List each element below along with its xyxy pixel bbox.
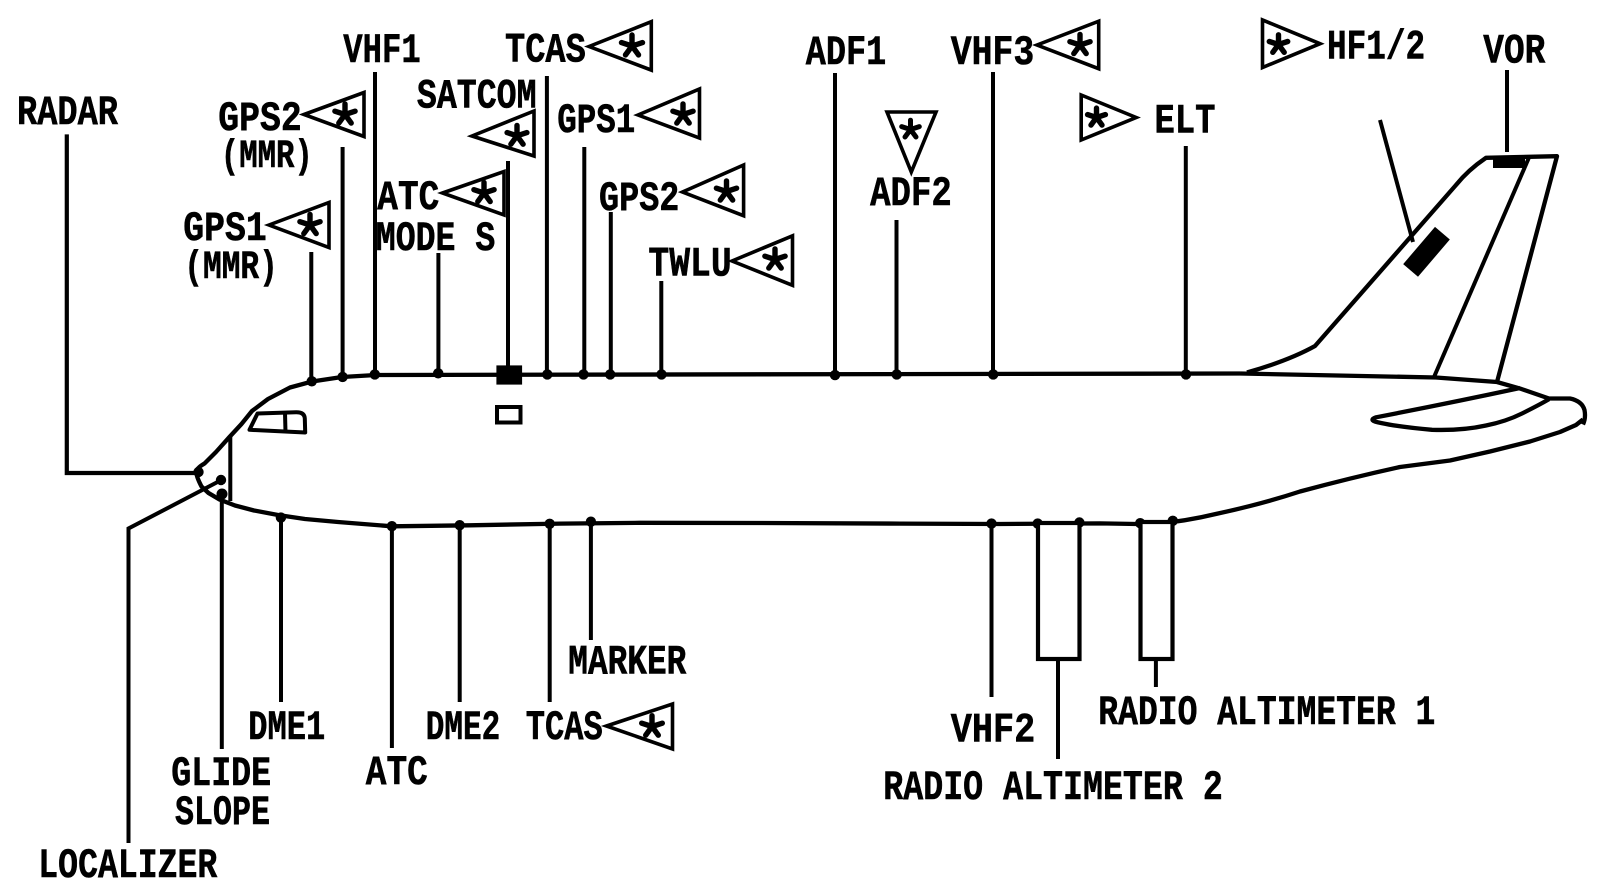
svg-text:ADF2: ADF2 [870, 170, 952, 218]
RADIO ALTIMETER 1 antenna rectangle [1141, 522, 1173, 659]
open square below SATCOM antenna [497, 407, 521, 423]
ADF2 antenna line [895, 220, 899, 375]
triangle flag TCAS top [589, 22, 651, 70]
svg-text:DME1: DME1 [248, 704, 325, 752]
svg-text:TCAS: TCAS [505, 27, 586, 75]
TCAS bottom antenna line [548, 524, 552, 702]
svg-text:VHF2: VHF2 [951, 707, 1036, 755]
RADIO ALTIMETER 2 antenna rectangle [1038, 523, 1080, 659]
LOCALIZER pointer line [129, 481, 220, 843]
VHF1 antenna line [373, 72, 377, 375]
svg-text:LOCALIZER: LOCALIZER [38, 842, 218, 888]
triangle flag TWLU [732, 236, 793, 285]
svg-text:(MMR): (MMR) [184, 245, 277, 290]
DME2 dot [455, 520, 465, 530]
svg-text:RADIO ALTIMETER 1: RADIO ALTIMETER 1 [1098, 689, 1435, 737]
triangle flag TCAS bottom [607, 704, 673, 749]
svg-text:ADF1: ADF1 [806, 29, 887, 77]
GPS2 (MMR) antenna line [341, 147, 345, 377]
triangle flag HF1/2 [1263, 20, 1321, 68]
svg-text:SLOPE: SLOPE [175, 789, 270, 837]
DME2 antenna line [458, 525, 462, 702]
TCAS top antenna line [545, 76, 549, 375]
svg-text:VHF3: VHF3 [951, 29, 1035, 77]
ATC bottom antenna line [390, 526, 394, 748]
fuselage outline (top, nose, belly) [196, 374, 1583, 527]
rear fuselage top under fin and tailcone [1240, 374, 1585, 425]
svg-text:MARKER: MARKER [568, 639, 687, 687]
SATCOM antenna (filled square on fuselage top) [496, 365, 522, 384]
rudder hinge line [1434, 158, 1529, 378]
RADIO ALTIMETER 1 right dot [1168, 516, 1178, 526]
RADIO ALTIMETER 2 right dot [1074, 517, 1084, 527]
svg-text:RADIO ALTIMETER 2: RADIO ALTIMETER 2 [883, 764, 1223, 812]
ATC MODE S dot [433, 368, 443, 378]
triangle flag GPS2 right [683, 165, 744, 216]
VOR antenna line [1505, 70, 1509, 152]
GLIDE SLOPE antenna line [220, 494, 224, 749]
VHF2 antenna line [990, 524, 994, 697]
triangle flag GPS1 right [638, 89, 700, 138]
triangle flag ELT [1081, 95, 1136, 140]
triangle flag ATC MODE S [443, 172, 505, 216]
triangle flag GPS2 (MMR) [304, 93, 364, 137]
GPS2 (MMR) dot [337, 372, 347, 382]
svg-text:TCAS: TCAS [526, 704, 603, 752]
TCAS top dot [542, 369, 552, 379]
svg-text:HF1/2: HF1/2 [1327, 24, 1425, 72]
cockpit windshield [250, 412, 306, 432]
ADF1 antenna line [833, 73, 837, 376]
nose inner vertical line [228, 437, 232, 502]
triangle flag VHF3 [1037, 21, 1099, 68]
triangle flag SATCOM [472, 111, 534, 156]
nose glide-slope dot [217, 489, 228, 500]
RADAR pointer line [67, 134, 196, 473]
GPS1 (MMR) antenna line [309, 252, 313, 381]
nose localizer dot [216, 475, 226, 485]
svg-text:RADAR: RADAR [17, 89, 119, 137]
svg-text:DME2: DME2 [426, 704, 501, 752]
ADF2 dot [892, 369, 902, 379]
VHF3 antenna line [991, 72, 995, 375]
svg-text:(MMR): (MMR) [221, 134, 313, 179]
ELT dot [1181, 369, 1191, 379]
TWLU dot [656, 369, 666, 379]
VHF1 dot [370, 369, 380, 379]
GPS2 right dot [605, 369, 615, 379]
SATCOM antenna line [506, 161, 510, 366]
svg-text:SATCOM: SATCOM [417, 73, 537, 121]
GPS2 right antenna line [609, 212, 613, 375]
RADIO ALTIMETER 1 left dot [1135, 518, 1145, 528]
svg-text:GPS2: GPS2 [599, 175, 679, 223]
DME1 antenna line [279, 518, 283, 702]
RADIO ALTIMETER 2 left dot [1033, 518, 1043, 528]
svg-text:ELT: ELT [1155, 98, 1216, 146]
GPS1 right antenna line [582, 147, 586, 375]
svg-text:MODE S: MODE S [376, 215, 496, 263]
svg-text:ATC: ATC [366, 749, 428, 797]
MARKER antenna line [589, 522, 593, 640]
VHF2 dot [986, 518, 996, 528]
ATC bottom dot [387, 521, 397, 531]
nose radar dot [193, 467, 203, 477]
svg-text:VHF1: VHF1 [343, 27, 420, 75]
VHF3 dot [988, 369, 998, 379]
RADIO ALTIMETER 1 pointer line [1154, 661, 1158, 687]
RADIO ALTIMETER 2 pointer line [1056, 661, 1060, 759]
svg-text:VOR: VOR [1483, 28, 1546, 76]
GPS1 (MMR) dot [307, 376, 317, 386]
TWLU antenna line [659, 281, 663, 375]
GPS1 right dot [578, 369, 588, 379]
DME1 dot [276, 512, 286, 522]
triangle flag GPS1 (MMR) [269, 203, 329, 248]
windshield divider [283, 413, 288, 433]
MARKER dot [586, 517, 596, 527]
vertical fin outline [1247, 156, 1557, 382]
HF1/2 pointer line [1380, 120, 1413, 242]
TCAS bottom dot [545, 519, 555, 529]
svg-text:GPS1: GPS1 [557, 97, 635, 145]
horizontal stabilizer [1372, 388, 1549, 430]
VOR antenna (filled rect on fin top) [1493, 156, 1525, 169]
ATC MODE S antenna line [436, 253, 440, 374]
ADF1 dot [830, 370, 840, 380]
svg-text:TWLU: TWLU [648, 241, 731, 289]
HF antenna patch on fin [1403, 227, 1450, 277]
triangle flag ADF2 (pointing down) [887, 112, 936, 172]
ELT antenna line [1184, 146, 1188, 375]
